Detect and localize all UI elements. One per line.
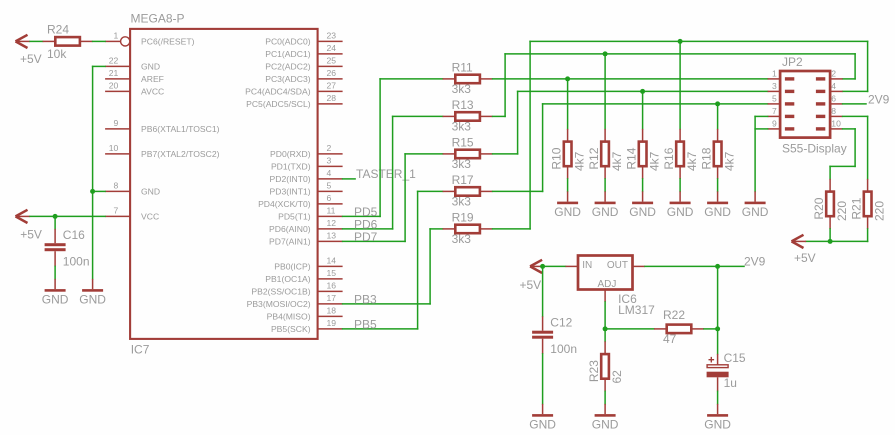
svg-text:1: 1 — [114, 31, 119, 41]
wire JP2 pin6 2V9 stub — [843, 103, 866, 105]
svg-text:28: 28 — [327, 93, 337, 103]
svg-text:PC6(/RESET): PC6(/RESET) — [141, 37, 195, 47]
svg-text:PD6(AIN0): PD6(AIN0) — [269, 224, 311, 234]
JP2 pin 4 — [816, 81, 843, 93]
svg-text:4k7: 4k7 — [610, 151, 624, 171]
IC7 pin 14 PB0(ICP) — [274, 256, 342, 272]
wire PB3 horizontal — [343, 303, 431, 305]
wire pin8 GND stub — [93, 190, 106, 192]
wire C15 to GND — [717, 391, 719, 404]
wire R21 to +5V line — [867, 229, 869, 242]
resistor R20 — [826, 179, 834, 229]
+5V supply arrow (reset pullup) — [16, 35, 42, 66]
wire R13 to bus B riser — [493, 115, 506, 117]
capacitor C12 — [532, 316, 553, 354]
svg-text:21: 21 — [109, 68, 119, 78]
ground symbol (C12) — [529, 404, 556, 432]
svg-text:9: 9 — [114, 118, 119, 128]
resistor R10 — [564, 129, 572, 179]
svg-text:VCC: VCC — [141, 212, 159, 222]
+5V supply arrow (regulator input) — [520, 260, 545, 292]
IC7 pin 21 AREF — [105, 68, 164, 84]
wire bus B riser — [504, 54, 506, 117]
svg-text:3k3: 3k3 — [452, 195, 472, 209]
wire C12 to GND — [542, 354, 544, 404]
svg-text:GND: GND — [42, 293, 69, 307]
svg-text:R13: R13 — [452, 98, 474, 112]
JP2 pin 7 — [768, 106, 795, 118]
svg-text:27: 27 — [327, 81, 337, 91]
svg-text:OUT: OUT — [607, 260, 628, 271]
svg-text:12: 12 — [327, 218, 337, 228]
wire JP2 pin4 stub wire — [843, 90, 868, 92]
svg-text:PB4(MISO): PB4(MISO) — [267, 312, 311, 322]
wire bus B drop to JP2 pin2 — [854, 54, 856, 79]
resistor R24 — [43, 37, 93, 46]
IC7 pin 25 PC2(ADC2) — [265, 56, 342, 72]
svg-text:R20: R20 — [812, 197, 826, 219]
wire +5V to R24 — [30, 40, 42, 42]
svg-text:15: 15 — [327, 268, 337, 278]
JP2 pin 2 — [816, 69, 843, 81]
ground symbol (R23) — [592, 404, 619, 432]
svg-text:R18: R18 — [699, 147, 713, 169]
svg-text:GND: GND — [629, 205, 656, 219]
resistor R23 — [601, 341, 609, 391]
wire PD7 vertical — [404, 154, 406, 242]
IC7 pin 11 PD5(T1) — [278, 206, 342, 222]
regulator IC6 LM317 body — [578, 256, 633, 290]
wire ADJ down — [604, 302, 606, 329]
svg-text:PD1(TXD): PD1(TXD) — [271, 162, 311, 172]
svg-text:PC1(ADC1): PC1(ADC1) — [265, 49, 311, 59]
svg-text:PB5: PB5 — [354, 317, 377, 331]
junction R22/C15 node — [715, 326, 720, 331]
svg-text:2V9: 2V9 — [744, 254, 766, 268]
svg-text:+5V: +5V — [520, 278, 542, 292]
svg-text:PB3(MOSI/OC2): PB3(MOSI/OC2) — [247, 299, 311, 309]
junction R10 on pin1 net — [565, 76, 570, 81]
svg-text:100n: 100n — [63, 255, 90, 269]
svg-text:R16: R16 — [662, 147, 676, 169]
wire JP2 pin7 stub wire — [755, 115, 768, 117]
IC7 pin 6 PD4(XCK/T0) — [258, 193, 343, 209]
svg-text:1u: 1u — [724, 376, 737, 390]
svg-text:14: 14 — [327, 256, 337, 266]
svg-text:10: 10 — [109, 143, 119, 153]
ground symbol (R18) — [704, 191, 731, 219]
svg-text:C15: C15 — [724, 351, 746, 365]
junction R16 on bus A — [678, 39, 683, 44]
svg-text:PB2(SS/OC1B): PB2(SS/OC1B) — [251, 287, 310, 297]
svg-text:GND: GND — [667, 205, 694, 219]
wire PB3 to R19 — [430, 228, 443, 230]
wire VCC down to C16 — [54, 216, 56, 229]
svg-text:PD4(XCK/T0): PD4(XCK/T0) — [258, 199, 311, 209]
wire R16 top — [679, 41, 681, 128]
svg-text:MEGA8-P: MEGA8-P — [131, 12, 185, 26]
IC7 pin 2 PD0(RXD) — [270, 143, 343, 159]
svg-text:R24: R24 — [47, 22, 69, 36]
svg-text:4k7: 4k7 — [722, 151, 736, 171]
wire bus B horizontal — [505, 53, 855, 55]
JP2 pin 6 — [816, 94, 843, 106]
svg-text:PB7(XTAL2/TOSC2): PB7(XTAL2/TOSC2) — [141, 149, 220, 159]
svg-text:PD0(RXD): PD0(RXD) — [270, 149, 311, 159]
svg-text:LM317: LM317 — [618, 303, 655, 317]
resistor R22 — [654, 325, 704, 334]
wire 2V9 down to C15 — [717, 266, 719, 354]
IC7 pin 28 PC5(ADC5/SCL) — [246, 93, 342, 109]
svg-text:1: 1 — [772, 69, 777, 79]
wire pin3 riser — [517, 91, 519, 153]
svg-text:GND: GND — [79, 293, 106, 307]
+5V supply arrow (display) — [792, 235, 816, 265]
wire PB5 to R17 — [418, 190, 443, 192]
svg-text:PB3: PB3 — [354, 292, 377, 306]
svg-text:R22: R22 — [663, 308, 685, 322]
svg-text:AREF: AREF — [141, 74, 164, 84]
junction R12 on bus B — [603, 51, 608, 56]
wire ADJ to R22 — [605, 328, 654, 330]
wire R10 top — [567, 79, 569, 129]
wire R10 to GND — [567, 179, 569, 192]
svg-text:ADJ: ADJ — [598, 279, 617, 290]
resistor R12 — [601, 129, 609, 179]
wire C12 drop — [542, 266, 544, 316]
svg-text:3k3: 3k3 — [452, 82, 472, 96]
wire R12 to GND — [604, 179, 606, 192]
svg-text:23: 23 — [327, 31, 337, 41]
svg-text:IC7: IC7 — [131, 343, 150, 357]
wire PD6 horizontal — [343, 228, 393, 230]
svg-text:8: 8 — [831, 106, 836, 116]
svg-text:R12: R12 — [587, 147, 601, 169]
IC7 pin 5 PD3(INT1) — [270, 181, 343, 197]
JP2 pin 8 — [816, 106, 843, 118]
svg-text:4: 4 — [831, 81, 836, 91]
svg-text:PC0(ADC0): PC0(ADC0) — [265, 37, 311, 47]
junction ADJ node — [603, 326, 608, 331]
wire R20 to +5V line — [829, 229, 831, 242]
+5V supply arrow (VCC) — [16, 210, 42, 242]
ground symbol (R12) — [592, 191, 619, 219]
wire JP2 gnd vertical — [754, 116, 756, 191]
svg-text:100n: 100n — [550, 342, 577, 356]
svg-text:PC5(ADC5/SCL): PC5(ADC5/SCL) — [246, 99, 311, 109]
wire pin22 GND stub — [93, 65, 106, 67]
wire R18 to GND — [717, 179, 719, 192]
svg-text:PD2(INT0): PD2(INT0) — [270, 174, 311, 184]
svg-text:220: 220 — [872, 201, 886, 221]
wire PB5 vertical — [417, 191, 419, 329]
wire PD5 to R11 — [380, 78, 443, 80]
IC7 pin 26 PC3(ADC3) — [265, 68, 342, 84]
IC7 pin 22 GND — [105, 56, 160, 72]
resistor R17 — [443, 187, 493, 196]
svg-text:GND: GND — [141, 62, 160, 72]
wire bus A riser — [529, 41, 531, 229]
svg-text:JP2: JP2 — [782, 55, 803, 69]
svg-text:R19: R19 — [452, 211, 474, 225]
IC7 pin 16 PB2(SS/OC1B) — [251, 281, 342, 297]
IC7 pin 23 PC0(ADC0) — [265, 31, 342, 47]
JP2 pin 3 — [768, 81, 795, 93]
wire PB5 horizontal — [343, 328, 418, 330]
svg-text:5: 5 — [772, 94, 777, 104]
wire OUT to 2V9 — [645, 265, 744, 267]
resistor R18 — [714, 129, 722, 179]
svg-text:R14: R14 — [624, 147, 638, 169]
wire JP2 pin2 stub wire — [843, 78, 856, 80]
wire PD7 horizontal — [343, 240, 406, 242]
IC7 pin 17 PB3(MOSI/OC2) — [247, 293, 343, 309]
svg-text:GND: GND — [742, 205, 769, 219]
wire R18 top — [717, 104, 719, 129]
resistor R16 — [676, 129, 684, 179]
svg-text:7: 7 — [114, 206, 119, 216]
IC7 pin 9 PB6(XTAL1/TOSC1) — [105, 118, 220, 134]
svg-text:26: 26 — [327, 68, 337, 78]
IC7 pin 13 PD7(AIN1) — [269, 231, 343, 247]
svg-text:47: 47 — [663, 332, 677, 346]
svg-text:3: 3 — [327, 156, 332, 166]
svg-text:PB0(ICP): PB0(ICP) — [274, 262, 310, 272]
svg-text:2: 2 — [327, 143, 332, 153]
IC6 pin ADJ — [598, 279, 617, 302]
wire GND net vertical — [92, 66, 94, 279]
junction R14 on pin3 net — [640, 89, 645, 94]
resistor R15 — [443, 150, 493, 159]
svg-text:+5V: +5V — [20, 52, 42, 66]
svg-text:7: 7 — [772, 106, 777, 116]
junction C12 on +5V — [540, 264, 545, 269]
svg-text:PB6(XTAL1/TOSC1): PB6(XTAL1/TOSC1) — [141, 124, 220, 134]
IC7 pin 4 PD2(INT0) — [270, 168, 343, 184]
IC7 pin 27 PC4(ADC4/SDA) — [245, 81, 342, 97]
wire R19 to bus A riser — [493, 228, 530, 230]
wire R23 to GND — [604, 391, 606, 404]
IC7 pin 24 PC1(ADC1) — [265, 43, 342, 59]
wire JP2 pin9 stub wire — [755, 128, 768, 130]
svg-text:R15: R15 — [452, 136, 474, 150]
wire +5V to IN — [545, 265, 566, 267]
IC7 pin 20 AVCC — [105, 81, 164, 97]
svg-text:R10: R10 — [549, 147, 563, 169]
JP2 pin 9 — [768, 119, 795, 131]
JP2 pin 5 — [768, 94, 795, 106]
svg-text:GND: GND — [141, 187, 160, 197]
svg-text:GND: GND — [704, 418, 731, 432]
svg-text:GND: GND — [592, 418, 619, 432]
resistor R14 — [639, 129, 647, 179]
svg-text:11: 11 — [327, 206, 336, 216]
junction C15 on 2V9 net — [715, 264, 720, 269]
ground symbol (C16) — [42, 279, 69, 307]
svg-text:10k: 10k — [47, 47, 67, 61]
ground symbol (JP2 pins 7,9) — [742, 191, 769, 219]
IC7 pin 18 PB4(MISO) — [267, 306, 343, 322]
svg-text:17: 17 — [327, 293, 337, 303]
svg-text:18: 18 — [327, 306, 337, 316]
svg-text:20: 20 — [109, 81, 119, 91]
svg-text:3k3: 3k3 — [452, 120, 472, 134]
svg-text:220: 220 — [835, 201, 849, 221]
svg-text:R11: R11 — [452, 61, 473, 75]
wire net pin1 row (R11 to JP2 pin1) — [493, 78, 768, 80]
svg-text:C12: C12 — [550, 315, 572, 329]
wire bus A horizontal — [530, 40, 868, 42]
svg-text:AVCC: AVCC — [141, 87, 164, 97]
svg-text:PB1(OC1A): PB1(OC1A) — [265, 274, 311, 284]
svg-text:5: 5 — [327, 181, 332, 191]
svg-text:4k7: 4k7 — [572, 151, 586, 171]
junction GND net at pin 8 — [90, 189, 95, 194]
svg-text:IN: IN — [582, 260, 592, 271]
wire pin10 drop — [854, 129, 856, 167]
wire PD5 horizontal — [343, 215, 381, 217]
IC7 pin 19 PB5(SCK) — [271, 318, 343, 334]
wire C16 to GND — [54, 266, 56, 279]
svg-text:3: 3 — [772, 81, 777, 91]
svg-text:24: 24 — [327, 43, 337, 53]
svg-text:13: 13 — [327, 231, 337, 241]
wire PD5 vertical — [379, 79, 381, 217]
svg-text:19: 19 — [327, 318, 337, 328]
wire TASTER_1 stub — [343, 178, 356, 180]
svg-text:2V9: 2V9 — [868, 92, 890, 106]
svg-text:3k3: 3k3 — [452, 232, 472, 246]
IC7 pin 1 PC6(/RESET) — [105, 31, 195, 47]
IC7 pin 15 PB1(OC1A) — [265, 268, 342, 284]
wire ADJ to R23 — [604, 329, 606, 342]
svg-text:PC2(ADC2): PC2(ADC2) — [265, 62, 311, 72]
wire R17 to pin5 riser — [493, 190, 543, 192]
svg-text:10: 10 — [831, 119, 841, 129]
ground symbol (R16) — [667, 191, 694, 219]
IC7 pin 12 PD6(AIN0) — [269, 218, 343, 234]
wire bus A drop to JP2 pin4 — [867, 41, 869, 91]
wire PD6 vertical — [392, 116, 394, 228]
svg-text:R23: R23 — [587, 360, 601, 382]
svg-text:22: 22 — [109, 56, 119, 66]
svg-text:62: 62 — [610, 370, 624, 384]
svg-text:PD7: PD7 — [354, 230, 378, 244]
svg-text:C16: C16 — [63, 228, 85, 242]
wire pin5 row horizontal — [543, 103, 768, 105]
JP2 pin 1 — [768, 69, 795, 81]
svg-text:PD7(AIN1): PD7(AIN1) — [269, 237, 311, 247]
svg-text:9: 9 — [772, 119, 777, 129]
wire JP2 pin8 to R21 riser — [843, 115, 868, 117]
svg-text:4: 4 — [327, 168, 332, 178]
resistor R13 — [443, 112, 493, 121]
connector JP2 body — [780, 71, 830, 138]
svg-text:8: 8 — [114, 181, 119, 191]
junction R18 on pin5 net — [715, 101, 720, 106]
svg-text:S55-Display: S55-Display — [782, 141, 847, 155]
junction R20 on +5V line — [828, 239, 833, 244]
ground symbol (R14) — [629, 191, 656, 219]
wire PD6 to R13 — [393, 115, 443, 117]
svg-text:PC4(ADC4/SDA): PC4(ADC4/SDA) — [245, 87, 311, 97]
IC7 pin 8 GND — [105, 181, 160, 197]
IC IC7 MEGA8-P body — [130, 29, 318, 339]
wire R24 to IC7 pin 1 — [93, 40, 106, 42]
capacitor C16 — [45, 229, 66, 267]
wire R22 to C15 node — [704, 328, 718, 330]
svg-text:PB5(SCK): PB5(SCK) — [271, 324, 311, 334]
IC7 pin 7 VCC — [105, 206, 159, 222]
ground symbol (IC7 GND net) — [79, 279, 106, 307]
svg-text:GND: GND — [529, 418, 556, 432]
svg-text:GND: GND — [554, 205, 581, 219]
wire R20 drop — [829, 166, 831, 179]
svg-text:PD3(INT1): PD3(INT1) — [270, 187, 311, 197]
wire PD7 to R15 — [405, 153, 443, 155]
resistor R11 — [443, 75, 493, 84]
svg-text:GND: GND — [592, 205, 619, 219]
svg-text:25: 25 — [327, 56, 337, 66]
svg-text:+5V: +5V — [794, 251, 816, 265]
svg-text:GND: GND — [704, 205, 731, 219]
wire pin3 row horizontal — [518, 90, 768, 92]
svg-text:TASTER_1: TASTER_1 — [356, 167, 416, 181]
svg-text:PD5(T1): PD5(T1) — [278, 212, 311, 222]
wire pin5 riser — [542, 104, 544, 191]
wire JP2 pin10 stub wire — [843, 128, 856, 130]
resistor R21 — [864, 179, 872, 229]
svg-text:6: 6 — [831, 94, 836, 104]
junction VCC / C16 — [53, 214, 58, 219]
svg-text:6: 6 — [327, 193, 332, 203]
svg-text:16: 16 — [327, 281, 337, 291]
IC6 pin IN — [566, 260, 593, 271]
wire R15 to pin3 riser — [493, 153, 518, 155]
capacitor C15 (polarized) — [707, 354, 729, 392]
wire R16 to GND — [679, 179, 681, 192]
svg-text:R17: R17 — [452, 173, 474, 187]
svg-text:PC3(ADC3): PC3(ADC3) — [265, 74, 311, 84]
svg-text:4k7: 4k7 — [685, 151, 699, 171]
svg-text:2: 2 — [831, 69, 836, 79]
wire +5V line bottom right — [806, 240, 868, 242]
ground symbol (R10) — [554, 191, 581, 219]
wire +5V to VCC pin 7 — [30, 215, 105, 217]
svg-text:4k7: 4k7 — [647, 151, 661, 171]
wire R14 to GND — [642, 179, 644, 192]
wire R21 drop — [867, 116, 869, 178]
IC7 pin 10 PB7(XTAL2/TOSC2) — [105, 143, 220, 159]
svg-text:+5V: +5V — [20, 228, 42, 242]
wire R14 top — [642, 91, 644, 128]
JP2 pin 10 — [816, 119, 843, 131]
IC7 pin 3 PD1(TXD) — [271, 156, 343, 172]
wire R12 top — [604, 54, 606, 129]
resistor R19 — [443, 225, 493, 234]
IC6 pin OUT — [607, 260, 645, 271]
ground symbol (C15) — [704, 404, 731, 432]
wire PB3 vertical — [429, 229, 431, 304]
svg-text:3k3: 3k3 — [452, 157, 472, 171]
svg-text:R21: R21 — [849, 197, 863, 219]
wire pin10 jog — [830, 165, 855, 167]
